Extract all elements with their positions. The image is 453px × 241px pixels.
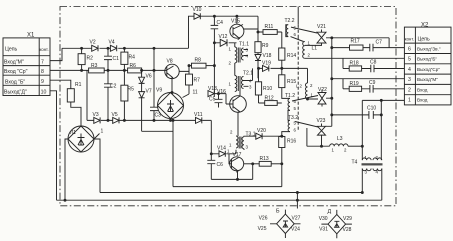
node V23-L3 [321, 145, 323, 147]
wire V17 box bottom [211, 164, 252, 180]
svg-text:R13: R13 [260, 156, 269, 162]
capacitor C4 [211, 16, 224, 43]
wire C bottom [173, 186, 282, 188]
svg-text:V2: V2 [90, 40, 96, 46]
node V22out [331, 97, 333, 99]
svg-text:V30: V30 [319, 216, 328, 222]
transistor V17 [229, 152, 244, 172]
wire transducer right to bottom bus A [94, 139, 100, 193]
inductor L3 [330, 136, 364, 153]
svg-text:Цепь: Цепь [418, 37, 431, 43]
svg-text:C2: C2 [110, 84, 117, 90]
transistor V15 [230, 16, 244, 39]
svg-text:V22: V22 [318, 87, 327, 93]
node V21out-row3 [331, 78, 333, 80]
node R2-row2 [81, 69, 83, 71]
resistor R15 [279, 60, 297, 96]
resistor R16 [279, 137, 297, 148]
svg-text:V24: V24 [291, 227, 300, 233]
svg-text:Выход"Д": Выход"Д" [4, 90, 27, 96]
svg-text:1: 1 [101, 129, 104, 135]
wire X1 row4 (Д) down [50, 91, 57, 200]
resistor R7 [186, 66, 201, 94]
wire bus top [62, 47, 189, 49]
svg-text:V12: V12 [219, 34, 228, 40]
connector X2 table [404, 27, 451, 105]
resistor R1 [67, 82, 81, 102]
wire V15 collector row [244, 16, 264, 42]
resistor R3 [89, 63, 105, 73]
svg-text:Д: Д [328, 209, 332, 215]
transformer T1.2 [282, 93, 297, 114]
svg-text:C5: C5 [209, 97, 216, 103]
node bus-C3drop [153, 47, 155, 49]
diode V12 [219, 34, 228, 46]
svg-text:1: 1 [408, 98, 411, 104]
X2 texts [405, 37, 441, 104]
resistor R9 [255, 42, 269, 53]
svg-text:R15: R15 [287, 79, 296, 85]
svg-text:L 2: L 2 [296, 84, 302, 89]
node V13-C5 [218, 93, 220, 95]
thyristor V22 [318, 87, 332, 107]
diode V14 [217, 146, 230, 157]
wire V10 to V15 top [214, 15, 258, 17]
wire T4 pin2 column [380, 100, 382, 160]
resistor R5 [121, 70, 134, 120]
node A-T4 [361, 192, 363, 194]
svg-text:7: 7 [41, 59, 44, 65]
wire row3 [332, 78, 405, 80]
svg-text:R2: R2 [87, 56, 94, 62]
wire C4 column down to R8/V13 [213, 43, 215, 94]
svg-text:L1: L1 [312, 46, 318, 52]
connector X1 table [3, 38, 50, 96]
resistor R6 [128, 63, 142, 73]
svg-text:V21: V21 [317, 24, 326, 30]
node R16-V20 [281, 135, 283, 137]
capacitor C5 [209, 94, 223, 108]
svg-text:C6: C6 [217, 162, 224, 168]
svg-text:R17: R17 [351, 39, 360, 45]
diode V7 [139, 89, 152, 132]
wire V8 emitter down to V9 [171, 79, 173, 93]
wire R16 to R13 row to bottom [281, 148, 283, 187]
svg-text:V10: V10 [193, 7, 202, 13]
resistor R8 [192, 58, 207, 69]
wire R8 right to column [206, 65, 214, 67]
wire bus corner up to V10 [189, 16, 195, 48]
svg-text:V8: V8 [167, 59, 173, 65]
transformer T3.2 [282, 114, 298, 137]
svg-text:R4: R4 [129, 55, 136, 61]
svg-text:V20: V20 [257, 128, 266, 134]
svg-text:R9: R9 [262, 43, 269, 49]
wire X1 row2 (Ср) to R3 row [50, 69, 165, 71]
wire L1 bottom to row5 [305, 57, 405, 59]
node top-C4 [213, 15, 215, 17]
svg-text:V13: V13 [208, 86, 217, 92]
svg-text:C8: C8 [370, 60, 377, 66]
svg-text:R19: R19 [350, 81, 359, 87]
svg-text:R12: R12 [265, 96, 274, 102]
diode V13 [208, 86, 226, 97]
gate wire T2.2 to V21 [291, 27, 317, 33]
svg-text:X2: X2 [421, 23, 429, 29]
wire X1 row3 (Б) to R1 [50, 80, 71, 89]
node col-R8 [213, 65, 215, 67]
diode V6 [139, 70, 152, 91]
svg-text:V17: V17 [233, 152, 242, 158]
wire V7 to V9 drop [142, 130, 173, 132]
wire V3/V5 row [87, 70, 211, 120]
wire row3 stub to R19 [342, 79, 344, 89]
svg-text:C1: C1 [113, 56, 120, 62]
resistor R17 with C7 [332, 39, 405, 52]
wire X1 row1 to bus [50, 48, 62, 60]
wire V11 row corner down (C6 branch) [210, 120, 212, 160]
node V19-R14 [281, 67, 283, 69]
resistor R11 [263, 24, 277, 34]
svg-text:R5: R5 [128, 87, 135, 93]
resistor R18 with C8 [343, 60, 404, 73]
diode V3 [93, 112, 101, 123]
wire R1 to transducer [71, 102, 81, 126]
resistor R4 [121, 48, 135, 70]
svg-text:R11: R11 [265, 24, 274, 30]
node V3row-C3 [153, 119, 155, 121]
transformer core (common, dashed) [297, 25, 299, 131]
svg-text:Вход"М": Вход"М" [4, 60, 24, 66]
node B-left [64, 199, 66, 201]
svg-text:C7: C7 [376, 40, 383, 46]
transistor V8 [165, 59, 180, 79]
wire V15 emitter to T1.1 [235, 43, 237, 47]
svg-text:конт.: конт. [405, 37, 414, 42]
svg-text:10: 10 [41, 90, 47, 96]
diode V4 [109, 40, 117, 52]
svg-text:X1: X1 [27, 33, 35, 39]
wire transducer left to bottom bus B [65, 139, 68, 200]
svg-text:R14: R14 [287, 53, 296, 59]
svg-text:Выход"Зв.": Выход"Зв." [417, 46, 441, 51]
diode V11 [194, 112, 203, 123]
node C4-V12row [213, 42, 215, 44]
svg-text:V3: V3 [93, 112, 99, 118]
resistor R10 [255, 68, 272, 103]
wire frame drop / core line [297, 7, 299, 25]
svg-text:R6: R6 [130, 63, 137, 69]
node A-bridgefeed [296, 192, 298, 194]
svg-text:V26: V26 [259, 216, 268, 222]
svg-text:Выход"Ср": Выход"Ср" [417, 67, 440, 72]
wire V9 bottom stub [170, 119, 172, 121]
node V3row-C2 [107, 119, 109, 121]
svg-text:C10: C10 [367, 106, 376, 112]
svg-text:V6: V6 [146, 74, 152, 80]
svg-text:V11: V11 [194, 112, 203, 118]
wire drop C from V3row [172, 120, 174, 186]
node V8-V9 [171, 92, 173, 94]
X1 texts [4, 47, 49, 96]
wire bypass into X2 row6 [388, 38, 390, 48]
wire V12 row [214, 42, 234, 44]
node V3row-R5 [123, 119, 125, 121]
svg-text:L3: L3 [337, 136, 343, 142]
wire V17 collector to R13 [244, 163, 260, 165]
transformer T1.1 [229, 42, 250, 76]
svg-text:9: 9 [41, 79, 44, 85]
wire A [100, 192, 362, 194]
gate wire T3.2 to V23 [295, 122, 318, 128]
svg-text:V15: V15 [231, 18, 240, 24]
node bus-R2 [81, 47, 83, 49]
svg-text:Б: Б [276, 209, 280, 215]
node box-R13 [252, 163, 254, 165]
node V15row-R9 [257, 31, 259, 33]
svg-text:T2.1: T2.1 [243, 71, 253, 77]
node V3row-dropC [172, 119, 174, 121]
node V3row-V9 [170, 119, 172, 121]
svg-text:T4: T4 [352, 160, 358, 166]
wire V8 collector right [179, 66, 191, 72]
transistor V16 [217, 89, 246, 113]
node top-V15 [236, 15, 238, 17]
svg-text:V9: V9 [156, 88, 162, 94]
svg-text:R10: R10 [263, 86, 272, 92]
transducer Л1 [68, 126, 94, 152]
node V6-row2 [141, 69, 143, 71]
diode V2 [90, 40, 99, 52]
node V21out-R17row [331, 47, 333, 49]
thyristor V21 [305, 24, 389, 45]
diode V19 row [259, 67, 308, 69]
wire V14 row [211, 150, 236, 164]
wire R7 to V9 pin 11 [183, 90, 198, 98]
svg-text:C4: C4 [217, 20, 224, 26]
capacitor C3 [150, 107, 161, 120]
inductor L2 [296, 68, 318, 100]
svg-text:Выход"Б": Выход"Б" [417, 57, 437, 62]
node B-bridgefeed [296, 199, 298, 201]
diode V19 [262, 61, 271, 72]
gate wire T1.2 to V22 [292, 96, 318, 102]
resistor R19 with C9 [343, 80, 404, 93]
svg-text:5: 5 [408, 57, 411, 63]
svg-text:Л1: Л1 [70, 130, 76, 136]
svg-text:R7: R7 [194, 78, 201, 84]
capacitor C1 [104, 48, 119, 70]
svg-text:V31: V31 [319, 226, 328, 232]
wire T4 pin1 column [361, 100, 363, 160]
node bus-R4 [123, 47, 125, 49]
resistor R14 [279, 48, 297, 60]
svg-text:Вход "Ср": Вход "Ср" [4, 69, 28, 75]
svg-text:V29: V29 [343, 216, 352, 222]
transformer T2.1 [229, 68, 254, 91]
wire C3 drop [153, 48, 155, 107]
node bus-C1 [107, 47, 109, 49]
svg-text:Выход"М": Выход"М" [417, 77, 438, 82]
wire V17 emitter to box bottom [237, 172, 239, 180]
svg-text:3: 3 [408, 77, 411, 83]
node V21out [331, 37, 333, 39]
node R4-row2 [123, 69, 125, 71]
svg-text:V18: V18 [263, 53, 272, 59]
node C6col-V14row [210, 153, 212, 155]
svg-text:V28: V28 [343, 227, 352, 233]
svg-text:конт.: конт. [40, 47, 49, 52]
svg-text:R16: R16 [287, 139, 296, 145]
transformer T3.1 [229, 130, 256, 151]
svg-text:2: 2 [408, 88, 411, 94]
node R16-R13 [281, 163, 283, 165]
svg-text:C9: C9 [369, 80, 376, 86]
node row1-C10col [380, 99, 382, 101]
svg-text:T2.2: T2.2 [285, 18, 295, 24]
wire R11 to R14 top [277, 32, 282, 48]
svg-text:V23: V23 [317, 118, 326, 124]
svg-text:Вход: Вход [417, 98, 428, 103]
svg-text:V19: V19 [262, 61, 271, 67]
wire V16 collector up / emitter down [238, 91, 240, 136]
resistor R2 [78, 48, 93, 70]
wire row5 stub to R18 [342, 58, 344, 68]
capacitor C2 [104, 70, 117, 120]
svg-text:V25: V25 [258, 226, 267, 232]
resistor R13 [259, 156, 271, 166]
svg-text:4: 4 [408, 67, 411, 73]
wire bridge feed [296, 193, 298, 209]
svg-text:R3: R3 [91, 63, 98, 69]
svg-text:8: 8 [41, 69, 44, 75]
pin 1 label of transducer [94, 129, 104, 140]
svg-text:R8: R8 [195, 58, 202, 64]
wire V21 out column [331, 38, 333, 127]
wire R13 to R16 column [271, 163, 282, 165]
wire row1 [362, 99, 404, 101]
svg-text:V27: V27 [292, 216, 301, 222]
wire T2.2 bottom to L1 top [291, 37, 304, 42]
thyristor V23 [317, 118, 332, 146]
diode V20 [256, 128, 282, 139]
node V17-box [237, 178, 239, 180]
node R7R8 [188, 65, 190, 67]
wire B [57, 199, 382, 201]
svg-text:V7: V7 [146, 89, 152, 95]
capacitor C10 row [331, 106, 383, 119]
capacitor C6 [207, 160, 223, 179]
svg-text:R1: R1 [75, 82, 82, 88]
svg-text:V4: V4 [109, 40, 115, 46]
diode V18 [255, 53, 272, 79]
svg-text:11: 11 [193, 90, 198, 96]
transducer V9 [156, 88, 184, 119]
svg-text:Вход "Б": Вход "Б" [5, 79, 25, 85]
wire V23 bottom / L3 row [307, 128, 330, 146]
node V19-V18 [258, 67, 260, 69]
svg-text:V14: V14 [217, 146, 226, 152]
node C1-row2 [107, 69, 109, 71]
diode V10 [193, 7, 215, 19]
svg-text:R18: R18 [350, 61, 359, 67]
inductor L1 [303, 41, 318, 59]
svg-text:V16: V16 [217, 89, 226, 95]
svg-text:Вход: Вход [417, 88, 428, 93]
enclosure frame (dash-dot) [60, 7, 396, 206]
svg-text:V5: V5 [112, 112, 118, 118]
transformer T2.2 [285, 18, 297, 37]
resistor R12 [259, 96, 282, 106]
diode V5 [112, 112, 120, 123]
node C3-row2 [153, 69, 155, 71]
svg-text:Цепь: Цепь [5, 47, 18, 53]
svg-text:6: 6 [408, 46, 411, 52]
